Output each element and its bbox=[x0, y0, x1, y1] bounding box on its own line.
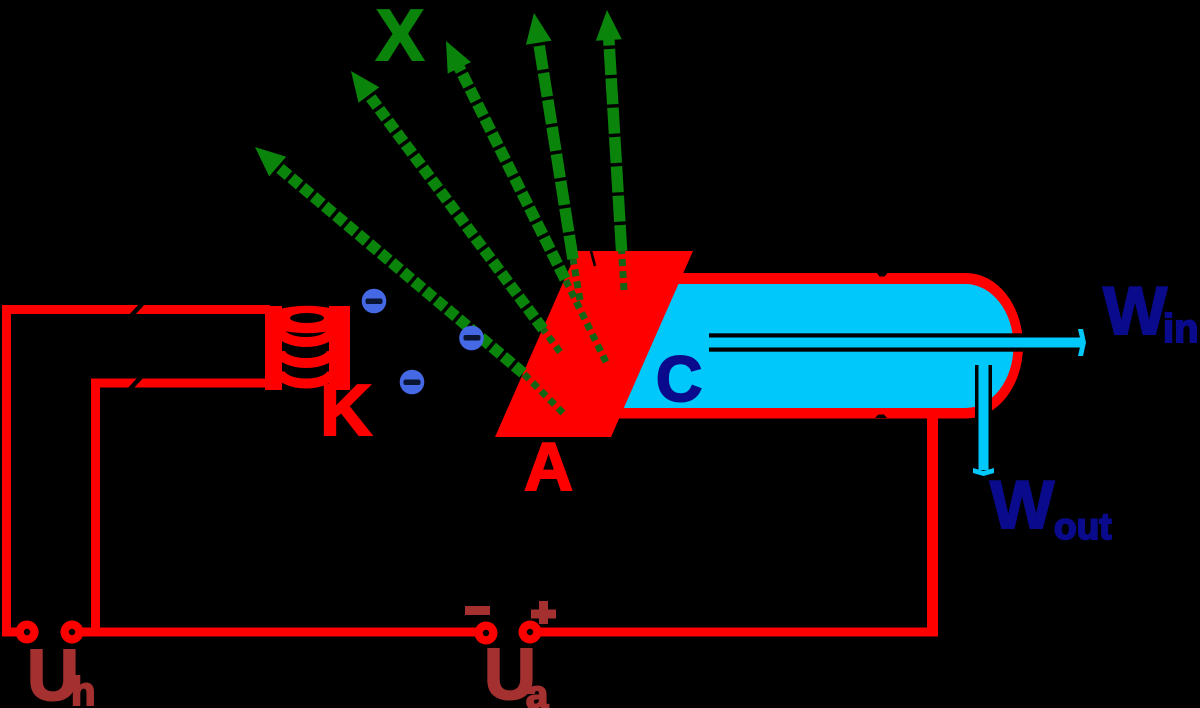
svg-text:A: A bbox=[524, 429, 573, 505]
svg-text:out: out bbox=[1054, 506, 1112, 547]
svg-text:C: C bbox=[656, 343, 702, 415]
svg-text:K: K bbox=[320, 371, 372, 451]
svg-text:a: a bbox=[526, 673, 549, 708]
svg-text:in: in bbox=[1163, 307, 1199, 351]
svg-text:h: h bbox=[71, 670, 95, 708]
svg-text:W: W bbox=[990, 467, 1055, 543]
svg-text:W: W bbox=[1103, 273, 1168, 349]
svg-text:X: X bbox=[376, 0, 424, 76]
